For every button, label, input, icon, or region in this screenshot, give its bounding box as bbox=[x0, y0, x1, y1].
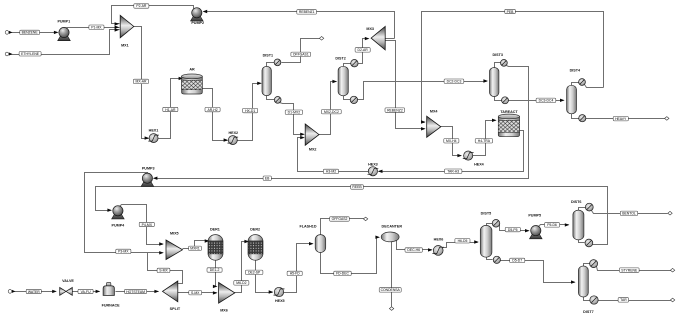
wire DE2-SP bbox=[256, 260, 273, 293]
reactor TAREACT bbox=[498, 114, 519, 137]
flash drum FLASH1D bbox=[315, 235, 326, 253]
svg-text:HEX3: HEX3 bbox=[368, 162, 378, 166]
svg-text:MX2: MX2 bbox=[309, 148, 317, 152]
wire D2-AR bbox=[359, 39, 369, 64]
stream label P1-MX bbox=[89, 25, 104, 29]
svg-text:TAR-H3: TAR-H3 bbox=[447, 169, 459, 173]
column DIST1 bbox=[262, 66, 271, 95]
svg-text:HEX4: HEX4 bbox=[474, 162, 485, 166]
wire DIST1 condenser line bbox=[267, 63, 275, 68]
svg-text:HEX2: HEX2 bbox=[228, 131, 238, 135]
stream label PEB bbox=[505, 9, 516, 13]
pump PUMP2 bbox=[191, 8, 204, 21]
svg-text:S-MX: S-MX bbox=[159, 269, 168, 273]
condenser of DIST1 bbox=[274, 59, 281, 66]
svg-text:REBENZ1: REBENZ1 bbox=[299, 10, 315, 14]
svg-text:MX1: MX1 bbox=[121, 44, 129, 48]
svg-text:FD-DEC: FD-DEC bbox=[336, 272, 349, 276]
wire DIST1 reboiler line bbox=[267, 95, 275, 100]
product symbol BENTOL bbox=[668, 211, 672, 215]
svg-text:S-MX: S-MX bbox=[191, 291, 200, 295]
svg-text:OFFGAS2: OFFGAS2 bbox=[332, 217, 348, 221]
stream label HX-D1 bbox=[243, 108, 258, 112]
condenser of DIST6 bbox=[585, 203, 593, 211]
svg-text:STYRENE: STYRENE bbox=[621, 268, 638, 272]
svg-text:AR-H2: AR-H2 bbox=[208, 108, 218, 112]
stream label VA-FU bbox=[78, 289, 93, 293]
stream label S-MX bbox=[189, 291, 202, 295]
heat exchanger HEX2 bbox=[228, 136, 239, 145]
stream label D5-P5 bbox=[505, 227, 520, 231]
svg-text:D5-D7: D5-D7 bbox=[512, 259, 522, 263]
stream label MX2-DC2 bbox=[322, 110, 342, 114]
stream label S-MX bbox=[157, 268, 170, 272]
svg-text:MXR1: MXR1 bbox=[190, 247, 200, 251]
svg-text:REEB: REEB bbox=[352, 185, 362, 189]
stream label EB bbox=[263, 176, 271, 180]
wire DIST2 reboiler line bbox=[344, 95, 351, 100]
wire P4-MX bbox=[120, 205, 163, 245]
wire P1-MX bbox=[67, 27, 120, 29]
reboiler of DIST4 bbox=[579, 115, 586, 122]
wire MX3 upper outlet bbox=[386, 38, 395, 40]
svg-text:PUMP1: PUMP1 bbox=[57, 20, 70, 24]
svg-text:REBENZ2: REBENZ2 bbox=[387, 108, 403, 112]
wire P2-AR bbox=[112, 6, 194, 24]
svg-text:P5-D6: P5-D6 bbox=[547, 223, 557, 227]
wire S-MX to MIX5 bbox=[148, 253, 183, 284]
stream label AR-H2 bbox=[205, 107, 220, 111]
svg-text:DC2-DC3: DC2-DC3 bbox=[447, 80, 462, 84]
wire OFFGAS2 bbox=[321, 219, 364, 236]
pump PUMP4 bbox=[112, 206, 125, 219]
svg-text:AR: AR bbox=[189, 67, 195, 71]
wire DIST2 condenser line bbox=[344, 64, 351, 68]
svg-text:DIST6: DIST6 bbox=[571, 200, 581, 204]
wire S-MX to MIX6 bbox=[178, 292, 217, 294]
heat exchanger HEX5 bbox=[274, 287, 285, 296]
wire OFFGAS1 bbox=[282, 39, 320, 63]
svg-text:D5-P5: D5-P5 bbox=[508, 228, 518, 232]
wire MXR1 bbox=[183, 241, 209, 249]
svg-text:TAREACT: TAREACT bbox=[500, 110, 518, 114]
stream label BENZENE bbox=[20, 30, 40, 34]
wire DIST5 reboiler line bbox=[487, 257, 493, 260]
svg-text:TAR: TAR bbox=[620, 298, 627, 302]
wire CONDENSA bbox=[391, 241, 393, 307]
stream label HEAVY bbox=[613, 117, 628, 121]
heat exchanger HEX6 bbox=[432, 246, 444, 256]
mixer MIX6 bbox=[219, 283, 235, 304]
stream label REEB bbox=[351, 185, 364, 189]
stream label DE2-SP bbox=[246, 270, 263, 274]
svg-text:MX2-DC2: MX2-DC2 bbox=[324, 110, 339, 114]
stream label H1-AR bbox=[163, 107, 178, 111]
svg-text:BENZENE: BENZENE bbox=[22, 31, 39, 35]
wire DIST3 condenser line bbox=[495, 63, 501, 69]
stream label P4-MX bbox=[139, 222, 154, 226]
svg-text:DIST4: DIST4 bbox=[570, 68, 581, 72]
stream label HOTSTEAM bbox=[125, 289, 147, 293]
svg-text:DIST7: DIST7 bbox=[583, 310, 593, 314]
wire DEC-H6 bbox=[397, 241, 432, 250]
stream label D1-MX2 bbox=[285, 110, 302, 114]
wire DC3-DC4 bbox=[509, 100, 564, 102]
heat exchanger HEX1 bbox=[148, 134, 159, 143]
wire D5-P5 bbox=[500, 225, 529, 231]
wire REEB bbox=[96, 187, 608, 245]
svg-text:HEX6: HEX6 bbox=[434, 238, 444, 242]
product symbol CONDENSA bbox=[389, 307, 393, 311]
stream label OFFGAS2 bbox=[330, 217, 350, 221]
svg-text:MX-H4: MX-H4 bbox=[446, 139, 457, 143]
decanter DECANTER bbox=[381, 232, 399, 242]
pump PUMP3 bbox=[141, 173, 154, 186]
svg-text:P4-MX: P4-MX bbox=[142, 223, 153, 227]
stream label FD-DEC bbox=[334, 271, 351, 275]
pump PUMP1 bbox=[58, 27, 71, 40]
svg-text:WATER: WATER bbox=[28, 290, 40, 294]
wire TAR-H3 bbox=[379, 131, 524, 172]
stream label DC3-DC4 bbox=[536, 98, 556, 102]
column DIST7 bbox=[578, 266, 588, 297]
svg-text:PEB: PEB bbox=[507, 10, 515, 14]
stream label REBENZ2 bbox=[385, 108, 405, 112]
stream label TAR bbox=[618, 298, 629, 302]
stream label STYRENE bbox=[619, 268, 639, 272]
wire DIST4 reboiler line bbox=[572, 113, 579, 119]
column DIST2 bbox=[338, 66, 348, 96]
stream label BENTOL bbox=[620, 211, 637, 215]
wire REBENZ2 bbox=[386, 41, 425, 129]
svg-text:MX-AR: MX-AR bbox=[136, 80, 147, 84]
stream label MX-H4 bbox=[444, 139, 459, 143]
wire H4-TRA bbox=[473, 121, 496, 156]
wire TAR bbox=[599, 300, 671, 302]
wire STYRENE bbox=[597, 267, 671, 271]
wire DIST4 condenser line bbox=[572, 83, 579, 87]
feed symbol ETHYLENE bbox=[5, 52, 9, 56]
wire HOTSTEAM bbox=[116, 291, 159, 293]
reboiler of DIST5 bbox=[493, 256, 500, 263]
column DIST5 bbox=[480, 225, 492, 257]
wire EB bbox=[155, 66, 529, 179]
wire H3-M2 bbox=[298, 138, 369, 172]
condenser of DIST2 bbox=[351, 60, 358, 67]
svg-text:P1-MX: P1-MX bbox=[91, 25, 102, 29]
wire HX-D1 bbox=[238, 84, 261, 141]
svg-text:MX4: MX4 bbox=[430, 110, 439, 114]
svg-text:HX-D1: HX-D1 bbox=[245, 109, 255, 113]
stream label DC2-DC3 bbox=[444, 79, 464, 83]
wire DIST6 reboiler line bbox=[579, 239, 585, 243]
wire MX-AR bbox=[134, 27, 149, 139]
svg-text:H1-AR: H1-AR bbox=[165, 108, 176, 112]
furnace FURNACE bbox=[103, 282, 114, 295]
wire BENZENE feed bbox=[9, 32, 57, 34]
column DIST3 bbox=[490, 68, 499, 97]
wire P5-D6 bbox=[539, 225, 569, 227]
svg-text:M6-D2: M6-D2 bbox=[236, 281, 246, 285]
feed symbol BENZENE bbox=[5, 31, 9, 35]
wire HEAVY bbox=[586, 118, 665, 120]
stream label MXR1 bbox=[189, 246, 202, 250]
feed symbol WATER bbox=[8, 290, 12, 294]
svg-text:DE2-SP: DE2-SP bbox=[248, 271, 261, 275]
column DIST6 bbox=[573, 210, 584, 240]
pump PUMP5 bbox=[530, 226, 543, 239]
wire DIST5 condenser line bbox=[487, 224, 493, 227]
splitter SPLIT bbox=[163, 281, 178, 302]
product symbol HEAVY bbox=[665, 117, 669, 121]
stream label REBENZ1 bbox=[297, 10, 317, 14]
svg-text:DIST3: DIST3 bbox=[492, 53, 502, 57]
wire DC2-DC3 bbox=[358, 82, 487, 100]
svg-text:EB: EB bbox=[265, 176, 270, 180]
wire M6-D2 bbox=[235, 242, 249, 293]
svg-text:H5-FD: H5-FD bbox=[290, 272, 301, 276]
wire H5-FD bbox=[284, 244, 313, 293]
column DIST4 bbox=[567, 85, 577, 114]
svg-text:D1-MX2: D1-MX2 bbox=[288, 111, 301, 115]
svg-text:H6-D5: H6-D5 bbox=[458, 239, 468, 243]
stream label D2-AR bbox=[355, 48, 370, 52]
svg-text:D2-AR: D2-AR bbox=[358, 48, 369, 52]
svg-text:BENTOL: BENTOL bbox=[622, 212, 636, 216]
wire WATER feed bbox=[13, 291, 56, 293]
wire BENTOL bbox=[592, 211, 668, 214]
wire ETHYLENE feed bbox=[9, 30, 120, 55]
condenser of DIST7 bbox=[590, 260, 598, 268]
product symbol TAR bbox=[670, 298, 674, 302]
svg-text:MX6: MX6 bbox=[220, 308, 228, 312]
heat exchanger HEX4 bbox=[463, 151, 474, 160]
stream label CONDENSA bbox=[379, 288, 401, 292]
stream label M6-D2 bbox=[234, 281, 249, 285]
svg-text:SPLIT: SPLIT bbox=[170, 307, 181, 311]
wire P3-MX bbox=[85, 173, 163, 253]
heat exchanger HEX3 bbox=[368, 167, 379, 176]
reactor DER1 bbox=[208, 235, 223, 261]
stream label DE1-2 bbox=[207, 268, 222, 272]
svg-text:DIST2: DIST2 bbox=[335, 57, 345, 61]
svg-text:PUMP2: PUMP2 bbox=[191, 21, 204, 25]
svg-text:PUMP5: PUMP5 bbox=[528, 214, 541, 218]
product symbol OFFGAS1 bbox=[319, 37, 323, 41]
svg-text:HOTSTEAM: HOTSTEAM bbox=[126, 290, 145, 294]
svg-text:H4-TRA: H4-TRA bbox=[478, 139, 491, 143]
reboiler of DIST1 bbox=[274, 97, 281, 104]
wire PEB riser bbox=[585, 85, 604, 88]
condenser of DIST4 bbox=[579, 79, 586, 86]
wire VA-FU bbox=[73, 291, 100, 293]
svg-text:PUMP3: PUMP3 bbox=[142, 166, 155, 170]
svg-text:P3-MX: P3-MX bbox=[118, 250, 129, 254]
svg-text:OFFGAS1: OFFGAS1 bbox=[293, 53, 309, 57]
svg-text:DEC-H6: DEC-H6 bbox=[407, 248, 420, 252]
svg-text:HEAVY: HEAVY bbox=[615, 117, 627, 121]
wire DIST7 condenser line bbox=[584, 264, 590, 268]
svg-text:P2-AR: P2-AR bbox=[136, 4, 147, 8]
wire FD-DEC bbox=[321, 238, 379, 274]
svg-text:MIX5: MIX5 bbox=[170, 232, 179, 236]
svg-text:HEX5: HEX5 bbox=[275, 299, 285, 303]
wire DE1-2 bbox=[216, 260, 217, 287]
stream label ETHYLENE bbox=[19, 52, 41, 56]
wire MX2-DC2 bbox=[319, 82, 337, 135]
wire DIST3 reboiler line bbox=[495, 96, 502, 101]
stream label MX-AR bbox=[133, 79, 148, 83]
reboiler of DIST7 bbox=[590, 296, 598, 304]
svg-text:FURNACE: FURNACE bbox=[102, 304, 121, 308]
stream label WATER bbox=[26, 289, 41, 293]
svg-text:DECANTER: DECANTER bbox=[382, 225, 403, 229]
mixer MX1 bbox=[120, 15, 134, 38]
svg-text:DIST5: DIST5 bbox=[481, 212, 491, 216]
wire H1-AR bbox=[159, 79, 183, 139]
mixer MX4 bbox=[427, 116, 441, 137]
reboiler of DIST3 bbox=[502, 97, 509, 104]
condenser of DIST3 bbox=[501, 60, 508, 67]
svg-text:ETHYLENE: ETHYLENE bbox=[21, 52, 40, 56]
svg-text:HEX1: HEX1 bbox=[149, 129, 159, 133]
svg-text:DC3-DC4: DC3-DC4 bbox=[539, 99, 554, 103]
wire D5-D7 bbox=[501, 261, 575, 283]
wire PEB bbox=[422, 12, 604, 123]
stream label H4-TRA bbox=[475, 139, 492, 143]
wire AR-H2 bbox=[203, 89, 228, 141]
stream label OFFGAS1 bbox=[291, 52, 311, 56]
svg-text:VA-FU: VA-FU bbox=[81, 290, 91, 294]
svg-text:DER1: DER1 bbox=[210, 228, 220, 232]
reboiler of DIST6 bbox=[585, 239, 593, 247]
stream label P3-MX bbox=[116, 249, 131, 253]
svg-text:MX3: MX3 bbox=[366, 27, 374, 31]
wire REBENZ1 bbox=[204, 12, 395, 39]
wire DIST7 reboiler line bbox=[584, 296, 590, 301]
reactor DER2 bbox=[248, 235, 263, 261]
reboiler of DIST2 bbox=[350, 96, 357, 103]
svg-text:DIST1: DIST1 bbox=[263, 53, 273, 57]
wire DIST6 condenser line bbox=[579, 208, 586, 212]
stream label H3-M2 bbox=[323, 169, 338, 173]
svg-text:H3-M2: H3-M2 bbox=[326, 170, 336, 174]
svg-text:PUMP4: PUMP4 bbox=[112, 223, 126, 227]
product symbol STYRENE bbox=[670, 268, 674, 272]
svg-text:VALVE: VALVE bbox=[62, 279, 74, 283]
svg-text:FLASH1D: FLASH1D bbox=[299, 225, 316, 229]
stream label TAR-H3 bbox=[445, 169, 462, 173]
valve VALVE bbox=[60, 287, 73, 295]
svg-text:DER2: DER2 bbox=[250, 228, 260, 232]
mixer MX2 bbox=[305, 124, 319, 145]
condenser of DIST5 bbox=[492, 220, 500, 228]
stream label H5-FD bbox=[287, 271, 302, 275]
svg-text:CONDENSA: CONDENSA bbox=[381, 288, 401, 292]
svg-text:DE1-2: DE1-2 bbox=[210, 268, 220, 272]
wire MX-H4 bbox=[441, 127, 461, 156]
reactor AR bbox=[182, 74, 203, 94]
stream label H6-D5 bbox=[455, 239, 470, 243]
splitter MX3 bbox=[371, 26, 385, 50]
stream label DEC-H6 bbox=[405, 248, 422, 252]
wire D1-MX2 bbox=[280, 103, 304, 135]
product symbol OFFGAS2 bbox=[363, 217, 367, 221]
stream label P2-AR bbox=[134, 4, 149, 8]
stream label P5-D6 bbox=[545, 223, 560, 227]
mixer MIX5 bbox=[166, 240, 183, 260]
stream label D5-D7 bbox=[510, 258, 525, 262]
wire H6-D5 bbox=[441, 243, 478, 248]
